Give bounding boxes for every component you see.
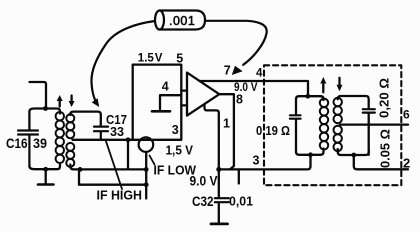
svg-text:4: 4 xyxy=(256,68,263,80)
capacitor T2 tank xyxy=(290,115,301,152)
svg-text:2: 2 xyxy=(403,155,410,170)
svg-text:0.05 Ω: 0.05 Ω xyxy=(378,129,393,168)
node tap junction xyxy=(126,137,131,142)
wire 9V supply rail xyxy=(219,155,311,169)
svg-text:0,01: 0,01 xyxy=(229,194,253,209)
svg-text:1,5 V: 1,5 V xyxy=(166,143,194,158)
wire T1 secondary top rail xyxy=(70,112,101,126)
svg-text:9.0 V: 9.0 V xyxy=(190,174,218,189)
inductor T2 secondary lower section xyxy=(334,126,342,151)
arrowhead curved left xyxy=(92,98,100,107)
wire pin 2 xyxy=(354,155,408,169)
arrowhead to pin 7 xyxy=(232,66,243,75)
tuning arrow up T1 xyxy=(57,95,63,107)
svg-text:1: 1 xyxy=(223,117,230,131)
wire input stub top-left xyxy=(30,82,47,109)
wire tap junction drop xyxy=(127,140,129,170)
wire T2 secondary bottom rail xyxy=(338,149,369,155)
svg-text:3: 3 xyxy=(253,154,260,168)
wire curved arrow right xyxy=(205,21,267,65)
capacitor C32 xyxy=(215,169,229,222)
wire IF LOW vertical xyxy=(145,152,147,199)
inductor T2 primary xyxy=(320,99,328,150)
inductor L1 tank1 coil xyxy=(56,112,64,163)
svg-text:0,20 Ω: 0,20 Ω xyxy=(377,78,392,118)
svg-text:.001: .001 xyxy=(169,14,195,28)
wire input stub lower xyxy=(181,104,187,106)
svg-text:7: 7 xyxy=(224,64,231,78)
leader IF LOW xyxy=(150,156,155,165)
svg-text:0,19 Ω: 0,19 Ω xyxy=(256,123,290,138)
node IF LOW branch xyxy=(144,167,149,172)
capacitor T2 secondary xyxy=(363,109,375,112)
op-amp U1 amplifier triangle xyxy=(187,73,219,116)
svg-text:6: 6 xyxy=(403,108,410,122)
wire curved arrow left xyxy=(91,21,155,105)
wire T1 tap to IC box xyxy=(73,139,133,141)
svg-text:4: 4 xyxy=(162,80,169,94)
wire T1 secondary bottom rail xyxy=(70,165,146,170)
inductor T1 secondary lower half xyxy=(66,143,74,167)
tuning arrow up T2 xyxy=(320,77,326,92)
wire T2 secondary cap drop xyxy=(368,113,370,155)
ground C32 xyxy=(211,222,228,225)
svg-text:33: 33 xyxy=(110,124,124,139)
wire T2 secondary top rail xyxy=(338,96,369,108)
svg-text:C16: C16 xyxy=(6,136,28,151)
svg-text:39: 39 xyxy=(33,136,47,151)
wire pin 7 output line xyxy=(200,81,308,96)
wire tap to pin 6 xyxy=(340,123,408,125)
svg-text:8: 8 xyxy=(236,93,243,107)
wire T2 tank bottom rail xyxy=(296,149,324,155)
inductor T2 secondary upper section xyxy=(334,98,342,123)
node T2 tank top xyxy=(305,94,310,99)
node supply rail xyxy=(216,167,221,172)
IC box U1 xyxy=(133,65,182,140)
dashed IF transformer can T2 xyxy=(264,65,401,185)
wire tank1 bottom rail xyxy=(29,165,60,170)
node T1 bottom rail xyxy=(78,167,83,172)
tubular capacitor .001 xyxy=(155,11,205,30)
capacitor C16 xyxy=(18,131,38,167)
leader IF HIGH xyxy=(106,140,123,189)
wire stub below rail xyxy=(238,171,240,184)
wire pin 8 xyxy=(219,94,234,169)
node tank1 top xyxy=(43,106,48,111)
svg-text:1.5 V: 1.5 V xyxy=(138,53,163,65)
node T2 tank bottom xyxy=(308,152,313,157)
capacitor C17 xyxy=(94,127,108,140)
ground tank1 xyxy=(38,169,54,184)
tuning arrow down T1 xyxy=(69,96,75,108)
wire lower return rail xyxy=(79,169,146,184)
internal bypass symbol pin 4 xyxy=(152,95,181,111)
node tank1 bottom xyxy=(43,167,48,172)
wire pin 1 xyxy=(205,105,219,170)
wire T2 tank top rail xyxy=(296,96,324,114)
svg-text:5: 5 xyxy=(176,52,183,66)
svg-text:3: 3 xyxy=(172,123,179,137)
wire input stub upper xyxy=(181,89,187,91)
tuning arrow down T2 xyxy=(337,78,343,92)
node T2 secondary bottom xyxy=(351,153,356,158)
node lower return rail xyxy=(144,182,149,187)
inductor T1 secondary upper half xyxy=(66,114,74,138)
wire tank1 top rail xyxy=(29,109,60,130)
svg-text:C32: C32 xyxy=(192,194,214,209)
svg-text:IF HIGH: IF HIGH xyxy=(97,188,143,203)
terminal circle IF test point xyxy=(139,137,154,152)
